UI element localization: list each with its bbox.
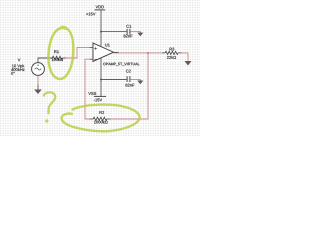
voltage source V	[11, 59, 44, 76]
capacitor C1	[124, 25, 133, 38]
ground arrow at source	[34, 90, 42, 95]
resistor R1	[52, 50, 63, 61]
wire VDD node to C1	[101, 31, 127, 33]
wire op-amp minus input to feedback loop	[90, 58, 93, 60]
resistor R2	[93, 111, 107, 123]
annotation: green circle around R2	[62, 105, 140, 132]
ground arrow at C2	[137, 80, 143, 85]
junction dot at output node	[147, 52, 149, 54]
wire op-amp VSS pin down to rail	[100, 58, 102, 97]
wire source top to R1	[38, 58, 52, 62]
resistor R3	[165, 48, 178, 59]
wire source bottom to ground	[37, 76, 39, 85]
wire VSS node to C2	[101, 79, 127, 81]
ground arrow at C1	[137, 32, 143, 37]
wire R1 to op-amp plus input	[63, 57, 66, 59]
power rail VDD	[86, 6, 105, 16]
wire op-amp output to R3	[114, 52, 162, 54]
junction dot at VSS/C2 node	[100, 79, 102, 81]
wire C2 to ground arrow	[130, 79, 140, 81]
capacitor C2	[125, 70, 134, 87]
op-amp U1	[93, 43, 139, 66]
annotation: question mark dot	[45, 119, 48, 122]
wire R3 to ground	[178, 52, 182, 54]
annotation: green circle around R1	[47, 26, 74, 79]
annotation: green question mark	[44, 92, 55, 113]
wire R2 to output node	[107, 118, 111, 120]
wire VDD rail to op-amp VDD pin	[100, 10, 102, 47]
ground arrow at R3	[185, 61, 192, 66]
grid background	[0, 0, 200, 136]
power rail VSS	[88, 92, 106, 101]
wire C1 to ground arrow	[130, 31, 140, 33]
junction dot at VDD/C1 node	[100, 31, 102, 33]
